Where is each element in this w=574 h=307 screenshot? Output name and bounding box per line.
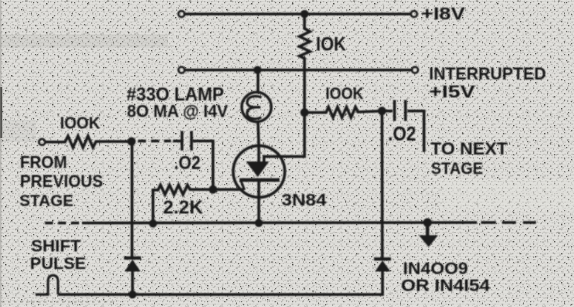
wire cathode down to rail [257, 182, 260, 224]
wire base to transistor [213, 188, 244, 191]
wire INTERRUPTED +15V rail [185, 69, 412, 72]
wire gate lead [264, 113, 305, 163]
svg-text:.O2: .O2 [388, 124, 416, 146]
wire 10K bottom to gate node [303, 70, 306, 113]
wire input node down to diode CR1 [131, 142, 134, 259]
svg-text:+I5V: +I5V [429, 82, 475, 102]
wire +18V rail [185, 13, 411, 16]
svg-text:OR IN4I54: OR IN4I54 [401, 277, 491, 295]
svg-text:IOK: IOK [316, 34, 346, 56]
scan artifact dotted baseline bottom-left [2, 301, 115, 303]
resistor R 2.2K [153, 185, 213, 224]
transistor anode arrow [246, 162, 269, 178]
wire to next stage [408, 111, 425, 152]
transistor anode lead inside [257, 146, 260, 163]
terminal +18V left [178, 11, 184, 17]
node junction gate/100K/10K [300, 108, 308, 116]
scan artifact left edge faint [0, 0, 1, 307]
terminal +15V right [412, 67, 418, 73]
wire shift rail dashed left end [45, 222, 79, 225]
svg-text:IOOK: IOOK [60, 115, 100, 133]
diode CR2 IN4009 cathode bar [374, 257, 391, 260]
svg-text:PREVIOUS: PREVIOUS [20, 171, 103, 191]
svg-text:IN4OO9: IN4OO9 [403, 260, 468, 278]
scan artifact left edge stripe [0, 87, 2, 138]
node junction 10K top [301, 10, 309, 18]
svg-text:INTERRUPTED: INTERRUPTED [429, 64, 546, 84]
node junction pulse line [129, 291, 137, 299]
resistor R 100K (input) [45, 136, 132, 148]
node junction 2.2K-rail [149, 220, 157, 228]
svg-text:.O2: .O2 [174, 153, 201, 173]
wire cap node down to diode CR2 [381, 111, 384, 259]
shift pulse waveform symbol [36, 275, 59, 294]
transistor cathode bar [240, 178, 280, 181]
capacitor C .02 (left) plates [181, 131, 184, 151]
ground arrow head [419, 235, 438, 247]
diode CR1 cathode bar [124, 256, 141, 259]
wire diode CR2 to pulse line corner [58, 272, 383, 295]
svg-text:STAGE: STAGE [431, 159, 483, 178]
resistor R 10K [300, 14, 311, 70]
wire diode CR1 to pulse line [131, 272, 134, 295]
svg-text:3N84: 3N84 [282, 192, 328, 210]
wire cap left to corner [193, 141, 213, 190]
svg-text:FROM: FROM [20, 152, 67, 172]
svg-text:PULSE: PULSE [30, 255, 86, 273]
resistor R 100K (right) [305, 107, 383, 118]
terminal +15V left [178, 67, 184, 73]
wire lamp lower lead to anode [257, 121, 261, 147]
svg-text:TO NEXT: TO NEXT [431, 139, 508, 159]
svg-text:8O MA @ I4V: 8O MA @ I4V [127, 101, 228, 121]
svg-text:STAGE: STAGE [20, 193, 74, 210]
transistor bar hook to base wire [241, 181, 245, 190]
wire dashed to cap .02 (left) [138, 140, 181, 143]
svg-text:+I8V: +I8V [421, 4, 465, 24]
node junction lamp top [254, 66, 262, 74]
node junction cathode-rail [255, 219, 263, 227]
wire shift rail dashed right end [481, 221, 536, 224]
wire lamp upper lead [257, 70, 260, 94]
terminal +18V right [411, 11, 417, 17]
resistor R 100K (input) terminal [39, 139, 45, 145]
svg-text:2.2K: 2.2K [163, 198, 203, 218]
scan mottling band top-left [0, 34, 168, 48]
node junction input [127, 137, 135, 145]
ground arrow stem [426, 223, 429, 238]
wire shift rail solid [82, 221, 477, 224]
capacitor C .02 (right) lead [382, 110, 393, 113]
node junction base [209, 185, 217, 193]
svg-text:SHIFT: SHIFT [31, 238, 81, 256]
transistor Q1 3N84 envelope [233, 146, 285, 198]
diode CR1 arrow [125, 260, 141, 272]
svg-text:IOOK: IOOK [326, 85, 364, 103]
diode CR2 IN4009 arrow [375, 261, 391, 272]
node junction cap right [378, 107, 386, 115]
capacitor C .02 (right) plates [393, 100, 396, 121]
lamp filament [247, 96, 261, 119]
lamp DS1 #330 bulb [242, 92, 272, 122]
ground arrow node [423, 218, 432, 227]
